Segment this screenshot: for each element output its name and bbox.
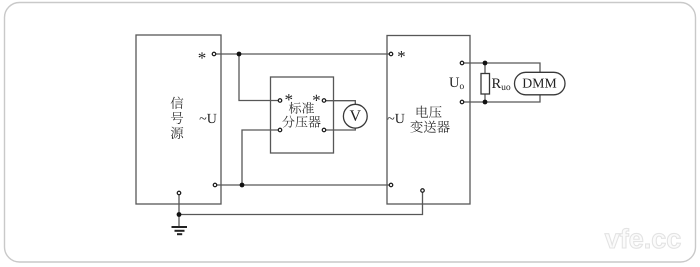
label ~U source xyxy=(200,117,207,119)
terminal source ground xyxy=(177,191,181,195)
wire divider output top to voltmeter xyxy=(324,101,356,106)
ground xyxy=(172,227,188,234)
voltmeter V xyxy=(343,104,367,128)
terminal transmitter out- xyxy=(460,100,464,104)
wire node A to divider top input xyxy=(239,54,280,101)
terminal transmitter in+ xyxy=(389,52,393,56)
DMM meter xyxy=(515,72,566,95)
resistor Ruo xyxy=(481,74,490,95)
wire source bottom to ground xyxy=(178,193,180,227)
label 标准 xyxy=(289,102,301,114)
wire transmitter output top to DMM xyxy=(462,63,540,74)
terminal divider in- xyxy=(278,128,282,132)
divider box 标准分压器 xyxy=(271,77,334,153)
wire bottom: source to transmitter xyxy=(215,184,391,186)
terminal divider out+ xyxy=(322,99,326,103)
junction node A xyxy=(237,52,242,57)
signal source box 信号源 xyxy=(136,35,221,204)
label 电压 xyxy=(417,106,428,118)
label DMM xyxy=(523,79,532,88)
terminal transmitter out+ xyxy=(460,61,464,65)
terminal source bottom-right xyxy=(213,183,217,187)
transmitter box 电压变送器 xyxy=(387,36,470,205)
label V meter xyxy=(350,110,361,121)
wire divider output bottom to voltmeter xyxy=(324,126,356,130)
terminal divider out- xyxy=(322,128,326,132)
watermark vfe.cc xyxy=(605,228,681,248)
terminal source top xyxy=(212,52,216,56)
junction node G xyxy=(177,212,182,217)
label 分压器 xyxy=(282,116,294,128)
terminal transmitter ground xyxy=(421,189,425,193)
label ~U transmitter xyxy=(388,117,395,119)
wire Ruo leads xyxy=(484,63,486,102)
wire top: source to transmitter xyxy=(214,53,391,55)
wire transmitter output bottom to DMM xyxy=(462,95,540,103)
terminal divider in+ xyxy=(278,99,282,103)
label transmitter polarity mark xyxy=(398,51,405,57)
label source polarity mark xyxy=(199,52,206,58)
label Uo xyxy=(449,78,459,88)
wire transmitter ground to node G xyxy=(179,191,423,215)
wire node B to divider bottom input xyxy=(242,130,280,185)
junction Ruo bottom xyxy=(483,100,488,105)
label divider polarity mark left xyxy=(285,94,292,100)
terminal transmitter in- xyxy=(389,183,393,187)
label 信号源 xyxy=(171,97,184,110)
label divider polarity mark right xyxy=(313,95,320,101)
junction Ruo top xyxy=(483,61,488,66)
label Ruo xyxy=(492,79,501,88)
label 变送器 xyxy=(410,120,422,132)
junction node B xyxy=(240,183,245,188)
